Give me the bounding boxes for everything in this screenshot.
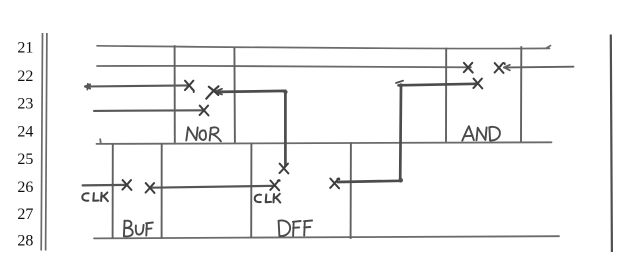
wire: track row 21 horizontal	[97, 46, 551, 49]
connection X CLK/BUF in	[123, 180, 132, 190]
cell DFF left edge	[250, 143, 252, 238]
right page rule	[611, 35, 612, 253]
connection X row24/NOR in	[200, 106, 209, 116]
cell NOR left edge	[174, 45, 176, 143]
line number 22	[17, 68, 33, 85]
svg-text:25: 25	[17, 151, 33, 168]
label CLK right	[255, 194, 281, 203]
line number 28	[17, 233, 33, 250]
connection X DFF Q out	[330, 178, 339, 188]
svg-text:27: 27	[17, 206, 33, 223]
connection X row22 right/AND	[495, 63, 505, 73]
line number 26	[17, 179, 33, 196]
connection X DFF CLK	[270, 180, 280, 190]
cell AND right edge	[520, 46, 522, 142]
line number 24	[17, 123, 33, 140]
connection X NOR out tap	[206, 86, 218, 98]
cell BUF right edge	[161, 143, 163, 238]
line number 25	[17, 151, 33, 168]
connection X DFF D input	[280, 164, 289, 174]
line number 23	[17, 96, 33, 113]
connection X row22/AND	[464, 63, 473, 73]
svg-text:22: 22	[17, 68, 33, 85]
cell BUF left edge	[112, 144, 114, 239]
wire: BUF output to DFF CLK	[152, 186, 275, 188]
connection X BUF out	[146, 183, 155, 193]
wire: row 22 right segment with arrow	[504, 65, 574, 71]
connection X row23/NOR in	[185, 81, 194, 92]
svg-text:28: 28	[17, 233, 33, 250]
cell AND left edge	[445, 48, 447, 143]
wire: bottom row boundary horizontal	[94, 236, 559, 238]
svg-text:24: 24	[17, 123, 33, 140]
label DFF	[279, 220, 313, 236]
left margin double rule	[41, 33, 47, 251]
connection X feedback/AND in	[473, 79, 482, 89]
wire: mid row boundary horizontal	[97, 139, 552, 144]
wire: DFF Q to AND input (thick)	[338, 81, 476, 183]
label CLK left	[82, 192, 108, 201]
wire: row 23 input with left arrow	[85, 84, 189, 90]
wire: NOR output to DFF D (thick)	[215, 89, 288, 166]
svg-text:23: 23	[17, 96, 33, 113]
wire: row 24 input	[94, 109, 204, 112]
svg-text:21: 21	[17, 40, 33, 57]
cell DFF right edge	[350, 142, 352, 239]
label NOR	[186, 127, 221, 141]
line number 27	[17, 206, 33, 223]
wire: track row 22 horizontal	[97, 66, 471, 67]
label AND	[462, 126, 500, 140]
label BUF	[124, 221, 153, 237]
svg-text:26: 26	[17, 179, 33, 196]
wire: CLK input to BUF	[83, 184, 128, 187]
line number 21	[17, 40, 33, 57]
cell NOR right edge	[233, 48, 236, 144]
